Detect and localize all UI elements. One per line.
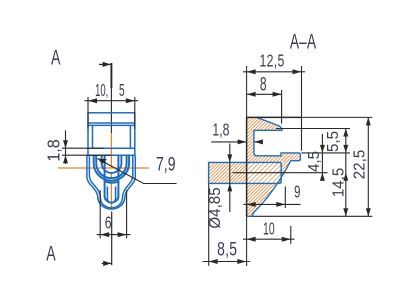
section arrow bottom: [102, 261, 112, 266]
hole centerline: [233, 172, 328, 174]
extension/edge lines black: [209, 66, 373, 266]
hole outline: [247, 162, 282, 183]
dim 9: [244, 202, 301, 207]
cup U outer arc (7.9 dia): [94, 155, 129, 181]
dim 8,5: [203, 259, 251, 264]
dim 10: [243, 237, 295, 242]
section arrow top: [99, 62, 111, 67]
svg-text:14,5: 14,5: [330, 167, 347, 197]
svg-text:4,5: 4,5: [305, 151, 322, 172]
inner wall left curve: [89, 155, 100, 198]
section trace line bottom: [111, 212, 113, 266]
inner wall right curve: [122, 155, 132, 198]
body outline blue: [209, 117, 301, 216]
part outline: top cap: [87, 113, 135, 209]
svg-text:A: A: [46, 242, 56, 266]
middle U arc: [102, 155, 122, 173]
svg-text:5,5: 5,5: [324, 131, 341, 152]
center tube inner slot: [107, 187, 115, 203]
svg-text:10,: 10,: [95, 80, 108, 100]
dim line 22,5: [366, 117, 371, 216]
svg-text:1,8: 1,8: [212, 120, 229, 140]
outer wall right S-curve: [125, 155, 136, 199]
part side walls: [87, 123, 89, 155]
outer wall left S-curve: [87, 155, 98, 199]
dim 1,8 wall: [211, 139, 263, 144]
dim 1,8 left: [62, 130, 111, 164]
8,5 left ext: [208, 184, 210, 266]
dim dia 4,85: [227, 144, 232, 213]
center tube outer: [105, 155, 119, 202]
boss bar fill: [209, 162, 247, 183]
svg-text:9: 9: [294, 183, 300, 202]
dim 6 bottom: [97, 190, 131, 238]
slot top ext: [276, 128, 350, 130]
svg-text:A: A: [51, 45, 61, 69]
svg-text:8,5: 8,5: [217, 238, 237, 260]
dome arc over tube: [104, 181, 120, 183]
svg-text:1,8: 1,8: [44, 139, 64, 161]
section trace line top: [110, 63, 112, 88]
9 ext: [284, 186, 286, 208]
svg-text:5: 5: [119, 81, 125, 101]
dim 10,5: [85, 97, 139, 129]
body section fill with hole cut out: [247, 117, 301, 216]
svg-text:10: 10: [263, 220, 275, 239]
lip top ext: [302, 152, 351, 154]
svg-text:22,5: 22,5: [351, 149, 368, 179]
svg-text:6: 6: [105, 213, 112, 233]
svg-text:A–A: A–A: [290, 30, 316, 54]
top edge + ext: [247, 116, 302, 118]
svg-text:Ø4,85: Ø4,85: [206, 187, 223, 229]
10 right ext: [290, 226, 292, 244]
svg-text:12,5: 12,5: [260, 51, 285, 71]
bottom U outer: [98, 199, 125, 210]
8 right ext: [281, 90, 283, 124]
dim line 5,5 / 14,5 column: [343, 129, 348, 217]
12,5 right ext: [301, 66, 303, 151]
hole sparse hatch: [247, 162, 282, 183]
svg-text:7,9: 7,9: [156, 153, 176, 175]
bottom ext: [253, 215, 372, 217]
dim line 4,5 column: [320, 134, 325, 181]
centerline vertical: [110, 133, 112, 210]
dim 8: [247, 92, 282, 97]
cup U inner arc: [96, 155, 126, 178]
left edge + exts: [246, 66, 248, 117]
centerline horizontal: [58, 167, 149, 169]
leader 7,9: [97, 159, 176, 184]
flange band lines: [88, 147, 135, 149]
bottom U inner: [100, 198, 122, 208]
svg-text:8: 8: [260, 74, 267, 96]
boss bar outline: [209, 162, 247, 183]
dim 12,5: [243, 69, 305, 74]
